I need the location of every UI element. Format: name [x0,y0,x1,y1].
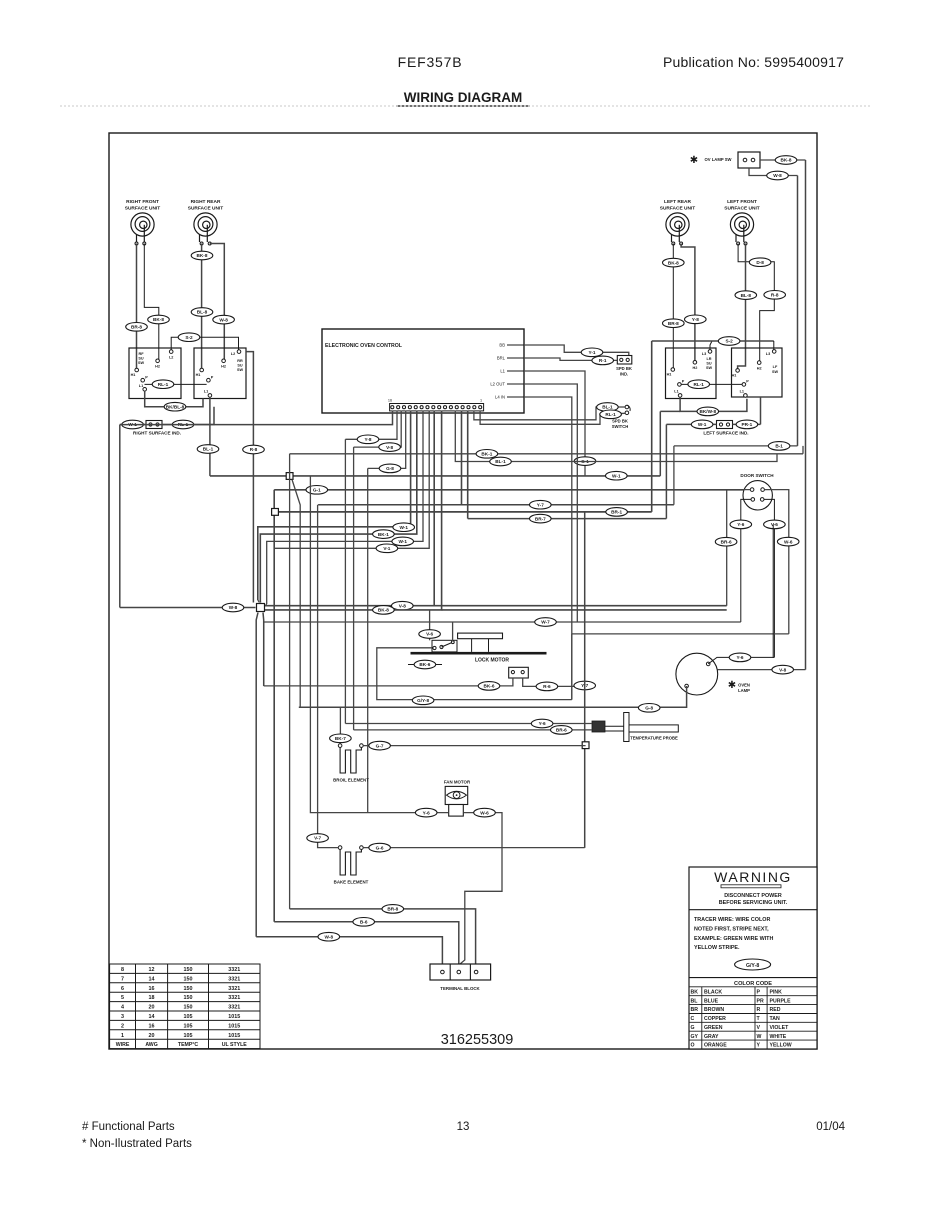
svg-text:H2: H2 [155,365,160,369]
terminal [440,645,443,648]
S3 terminal L3 [708,350,712,354]
svg-text:S-2: S-2 [185,335,193,340]
svg-text:LEFT REAR: LEFT REAR [664,199,691,205]
wire label Y-6 [415,808,437,817]
wire L4 IN down [524,397,572,700]
svg-text:BL-8: BL-8 [197,310,208,315]
EOC pin 11 [420,406,423,409]
S2 terminal L2 [237,350,241,354]
oven lamp switch SW1 [738,152,760,168]
S3 terminal P [678,383,682,387]
terminal [521,671,524,674]
svg-text:B-1: B-1 [775,444,783,449]
svg-text:G/Y-8: G/Y-8 [417,698,429,703]
wire lock switch feed [429,610,431,640]
svg-text:BK-1: BK-1 [481,452,492,457]
svg-text:SPD BK: SPD BK [612,419,628,424]
wire to left ind [666,423,716,425]
wire label G-7 [369,741,391,750]
svg-text:# Functional Parts: # Functional Parts [82,1121,175,1133]
wire lock to door switch [572,633,789,635]
svg-text:3321: 3321 [228,1005,240,1011]
wire contact left [264,678,513,686]
wire BB to spd bk ind [524,345,629,356]
wire bake feed [318,505,339,848]
wire fan line a [258,411,411,601]
diagram border frame [109,133,817,1049]
svg-text:SU: SU [706,362,712,366]
svg-text:L1: L1 [740,390,744,394]
wire label W-8 [222,603,244,612]
EOC pin 7 [443,406,446,409]
wire label W-6 [474,808,496,817]
svg-text:BR-8: BR-8 [131,325,142,330]
svg-text:1: 1 [121,1033,124,1039]
wire label BK-8 [191,251,213,260]
svg-text:LAMP: LAMP [738,688,750,693]
svg-text:VIOLET: VIOLET [770,1025,790,1031]
block terminal 2 [457,970,461,974]
S4 terminal L1 [744,394,748,398]
EOC pin 9 [432,406,435,409]
svg-text:BK-1: BK-1 [378,532,389,537]
wire label Y-7 [574,681,596,690]
terminal [433,646,436,649]
wire label BK-6 [414,660,436,669]
lock motor cap [458,633,503,639]
svg-text:SURFACE UNIT: SURFACE UNIT [660,206,696,212]
svg-text:LR: LR [706,357,711,361]
svg-text:V-8: V-8 [386,445,393,450]
svg-text:SW: SW [772,370,779,374]
wire label BL-8 [735,291,757,300]
svg-text:BK-7: BK-7 [335,736,346,741]
wire pin14 left [354,411,402,448]
terminal [156,423,159,426]
svg-text:BL-1: BL-1 [495,459,506,464]
svg-text:3321: 3321 [228,995,240,1001]
left surface indicator lamp DS2 [717,421,733,429]
wire L2 OUT down [524,384,577,622]
EOC pin 14 [402,406,405,409]
EOC terminal strip [390,404,484,411]
wire label BR-6 [715,537,737,546]
wire label BK-8 [775,156,797,165]
svg-text:RIGHT SURFACE IND.: RIGHT SURFACE IND. [133,431,181,436]
svg-text:H1: H1 [131,373,136,377]
wire left switch supply riser [651,341,653,512]
wire label BK-1 [373,530,395,539]
wire net B-1 [674,445,798,447]
svg-text:BL-1: BL-1 [203,447,214,452]
wire left ind riser [760,397,762,424]
svg-text:LOCK MOTOR: LOCK MOTOR [475,658,509,664]
svg-text:WARNING: WARNING [714,869,792,885]
svg-text:RIGHT REAR: RIGHT REAR [191,199,221,205]
svg-text:P: P [757,989,761,995]
svg-text:RIGHT FRONT: RIGHT FRONT [126,199,159,205]
svg-text:S-2: S-2 [725,339,733,344]
wire right ind to tie [162,424,193,426]
door switch terminal 4 [760,498,764,502]
terminal [200,242,203,245]
wire label RL-1 [688,380,710,389]
svg-text:W: W [757,1034,762,1040]
lamp switch terminal 2 [751,158,755,162]
svg-text:Y-7: Y-7 [537,502,544,507]
left front surface switch S4 [732,348,783,397]
oven lamp terminal 2 [685,684,689,688]
svg-text:WIRING DIAGRAM: WIRING DIAGRAM [404,90,523,105]
wire label BR-8 [663,319,685,328]
wire door switch feed [274,489,752,491]
wire S1.L1 to S2 [145,391,203,407]
svg-text:COPPER: COPPER [704,1016,726,1022]
wire lock stub [408,664,442,666]
S2 terminal L1 [208,394,212,398]
wire label G-8 [379,464,401,473]
wire label R-8 [764,291,786,300]
terminal [737,242,740,245]
S3 terminal H2 [693,361,697,365]
wire label BR-8 [126,323,148,332]
svg-text:3: 3 [121,1014,124,1020]
EOC pin 12 [414,406,417,409]
terminal [620,358,623,361]
EOC pin 16 [391,406,394,409]
wire label G-1 [574,457,596,466]
wire label D-8 [749,258,771,267]
svg-text:BK-8: BK-8 [781,158,792,163]
terminal [719,423,722,426]
S3 terminal H1 [671,368,675,372]
S1 terminal P [141,378,145,382]
wire label G-1 [306,486,328,495]
oven lamp terminal 1 [706,662,710,666]
svg-text:20: 20 [149,1005,155,1011]
S1 terminal L2 [169,350,173,354]
svg-text:16: 16 [149,986,155,992]
wire thick mid [274,511,652,513]
EOC pin 13 [408,406,411,409]
svg-text:1015: 1015 [228,1023,240,1029]
svg-text:G-8: G-8 [645,706,653,711]
wire net BK-1 [290,453,803,455]
svg-text:BAKE ELEMENT: BAKE ELEMENT [334,880,369,885]
svg-text:OVEN: OVEN [738,683,750,688]
wire right jog [802,446,804,454]
wire label V-8 [392,601,414,610]
svg-text:C: C [691,1016,695,1022]
svg-text:W-8: W-8 [219,317,228,322]
svg-text:14: 14 [149,976,155,982]
wire down to lamp feed [673,446,675,505]
right rear surface unit coil [194,213,217,242]
wire to right ind [120,424,146,426]
svg-text:L1: L1 [204,390,208,394]
svg-text:RF: RF [138,352,144,356]
svg-text:IND.: IND. [620,372,628,377]
wire [263,622,265,686]
wire broil right [363,745,585,747]
svg-text:SURFACE UNIT: SURFACE UNIT [125,206,161,212]
terminal block TB1 [430,964,491,980]
svg-text:H2: H2 [692,366,697,370]
svg-text:150: 150 [184,986,193,992]
svg-text:SURFACE UNIT: SURFACE UNIT [724,206,760,212]
door switch S6 [743,481,772,510]
svg-text:PINK: PINK [770,989,783,995]
wire left ind right [733,423,761,425]
svg-text:G: G [691,1025,695,1031]
wire junction upper right [264,411,435,606]
wire [259,601,262,603]
EOC pin 8 [438,406,441,409]
svg-text:BK/W-8: BK/W-8 [700,409,717,414]
svg-text:Y-1: Y-1 [588,350,595,355]
wire right bus A (lamp sw to oven lamp) [805,160,807,670]
EOC pin 3 [467,406,470,409]
wire pin13 left [368,411,406,469]
wire lever feed [452,622,454,642]
wire door sw t2 down [764,490,788,634]
svg-text:W-1: W-1 [398,539,407,544]
wire block line 1 [290,909,476,964]
svg-text:SWITCH: SWITCH [612,424,629,429]
wire broil feed [339,707,341,744]
svg-text:B-6: B-6 [360,920,368,925]
spd bk switch terminal 2 [625,411,629,415]
left rear surface switch S3 [666,348,717,399]
terminal [451,641,454,644]
wire right bus B [797,176,799,446]
wire junction pair right a [434,605,727,607]
svg-text:FAN MOTOR: FAN MOTOR [444,780,471,785]
wire S3.L3 riser [710,341,712,350]
wire label G/Y-8 [412,696,434,705]
speed bake indicator DS3 [617,356,632,365]
wire S1.L2 to S2.L2 [171,337,238,350]
svg-text:SURFACE UNIT: SURFACE UNIT [188,206,224,212]
svg-text:ORANGE: ORANGE [704,1043,727,1049]
svg-text:PURPLE: PURPLE [770,998,792,1004]
terminal [626,358,629,361]
svg-text:Y: Y [757,1043,761,1049]
bake terminal 2 [360,846,364,850]
wire label W-7 [535,618,557,627]
svg-text:BL: BL [691,998,699,1004]
wire label Y-6 [729,653,751,662]
electronic oven control U1 [322,329,524,413]
lock motor leg 2 [488,639,490,652]
wire net Y-7 [318,504,674,506]
svg-text:316255309: 316255309 [441,1032,514,1048]
svg-text:L4 IN: L4 IN [495,395,505,400]
wire left long drop b [273,490,275,922]
svg-text:BLUE: BLUE [704,998,719,1004]
wire label V-8 [772,665,794,674]
svg-text:4: 4 [121,1005,124,1011]
svg-text:150: 150 [184,1005,193,1011]
svg-text:3321: 3321 [228,986,240,992]
wire [773,656,774,658]
svg-text:Publication No: 5995400917: Publication No: 5995400917 [663,54,844,70]
wire right mid long vertical [584,512,586,848]
wire label V-7 [307,834,329,843]
svg-text:TEMPERATURE PROBE: TEMPERATURE PROBE [630,736,678,741]
wire left feed to junction [120,607,256,609]
svg-text:W-1: W-1 [698,422,707,427]
wire label G-8 [638,704,660,713]
svg-text:G-1: G-1 [313,488,321,493]
wire long drop to terminal block 1 [289,454,291,909]
svg-text:W-6: W-6 [784,539,793,544]
wire label BR-1 [606,508,628,517]
wire door sw t1 down [727,490,751,606]
wire label W-8 [213,315,235,324]
wire probe feed 1 [344,439,346,723]
door switch terminal 2 [761,488,765,492]
svg-text:G-8: G-8 [386,466,394,471]
svg-text:R-8: R-8 [771,293,779,298]
svg-text:UL STYLE: UL STYLE [222,1042,248,1048]
EOC pin 10 [426,406,429,409]
svg-text:BR-6: BR-6 [721,539,732,544]
svg-text:Y-8: Y-8 [364,437,371,442]
wire label W-8 [767,171,789,180]
svg-text:BK-8: BK-8 [197,253,208,258]
svg-text:TERMINAL BLOCK: TERMINAL BLOCK [440,986,480,991]
wire label BL-8 [191,308,213,317]
block terminal 3 [474,970,478,974]
svg-text:BR-8: BR-8 [387,907,398,912]
svg-text:TRACER WIRE: WIRE COLOR: TRACER WIRE: WIRE COLOR [694,917,770,923]
S2 terminal H1 [200,368,204,372]
svg-text:YELLOW STRIPE.: YELLOW STRIPE. [694,945,740,951]
wire label W-1 [392,537,414,546]
svg-text:RL-1: RL-1 [605,412,616,417]
broil terminal 1 [338,744,342,748]
wire fan left [310,476,448,813]
svg-text:TAN: TAN [770,1016,781,1022]
wire to spd bk switch 1 [474,407,625,420]
wire label R-1 [592,356,614,365]
wire junction to lock motor line [262,613,265,686]
svg-text:BEFORE SERVICING UNIT.: BEFORE SERVICING UNIT. [719,900,788,906]
wire probe 1 [345,723,592,725]
svg-text:BR: BR [691,1007,699,1013]
EOC pin 15 [397,406,400,409]
svg-text:BL-8: BL-8 [741,293,752,298]
wire label V-8 [379,443,401,452]
door switch terminal 3 [751,498,755,502]
wire junction to block line 3 [256,613,258,937]
wire fan line d [274,411,429,549]
svg-text:BR-8: BR-8 [668,321,679,326]
svg-text:LEFT SURFACE IND.: LEFT SURFACE IND. [703,431,748,436]
svg-text:8: 8 [121,967,124,973]
svg-text:O: O [691,1043,695,1049]
svg-text:150: 150 [184,967,193,973]
svg-text:L2: L2 [169,356,173,360]
svg-text:5: 5 [121,995,124,1001]
wire lamp to door sw [772,524,774,657]
wire to S4.L3 [773,341,775,350]
svg-text:1: 1 [480,399,482,403]
svg-text:Y-6: Y-6 [423,810,430,815]
svg-text:16: 16 [149,1023,155,1029]
wire LF H1 [738,244,746,371]
svg-text:V-1: V-1 [383,546,390,551]
wire label BK/W-8 [697,407,719,416]
S3 terminal L1 [678,394,682,398]
S1 terminal L1 [143,388,147,392]
wire label RL-1 [152,380,174,389]
S1 terminal H2 [156,359,160,363]
wire pin13 down [367,468,369,812]
svg-text:FEF357B: FEF357B [398,54,463,70]
wire [772,656,774,659]
svg-text:NOTED FIRST, STRIPE NEXT,: NOTED FIRST, STRIPE NEXT, [694,926,769,932]
svg-text:RED: RED [770,1007,781,1013]
svg-text:G-6: G-6 [376,845,384,850]
wire label W-1 [691,420,713,429]
wire door sw t4 down [764,499,774,657]
wire gauge table [110,964,260,1049]
svg-text:L3: L3 [766,352,770,356]
wire LF H2 [738,244,774,363]
wire S3.L1 to S4 [680,397,747,411]
wire block line 3 [256,937,442,964]
svg-text:7: 7 [121,976,124,982]
terminal [744,242,747,245]
wire left boxes drop a [659,411,661,476]
wire net BR-7 [468,518,667,520]
svg-text:P: P [682,380,685,384]
wire label Y-1 [581,348,603,357]
right front surface switch S1 [129,348,181,399]
wire S2.L1 down [209,397,211,476]
EOC pin 2 [473,406,476,409]
svg-text:L1: L1 [500,369,505,374]
svg-text:RR: RR [237,359,243,363]
wire S3.L1 left stub [660,410,680,412]
wire [266,604,267,606]
fan motor M1 [445,786,468,816]
wire lamp switch to right bus [760,159,806,161]
wire label Y-6 [531,719,553,728]
bake terminal 1 [338,846,342,850]
wire RF H1 [136,244,138,371]
svg-text:3321: 3321 [228,976,240,982]
broil terminal 2 [360,744,364,748]
svg-text:Y-6: Y-6 [736,655,743,660]
wire label W-6 [777,537,799,546]
wire label V-6 [419,630,441,639]
block terminal 1 [441,970,445,974]
wire LR H1 [672,244,674,370]
svg-text:P: P [211,376,214,380]
svg-text:V: V [757,1025,761,1031]
wire label BK/BL-8 [164,402,186,411]
svg-text:* Non-Ilustrated Parts: * Non-Ilustrated Parts [82,1138,192,1150]
wire RR H2 [210,244,225,361]
wire label RL-1 [172,420,194,429]
wire far left vertical [119,425,121,608]
wire left switches supply [652,340,774,342]
svg-text:6: 6 [121,986,124,992]
wire label B-1 [768,442,790,451]
